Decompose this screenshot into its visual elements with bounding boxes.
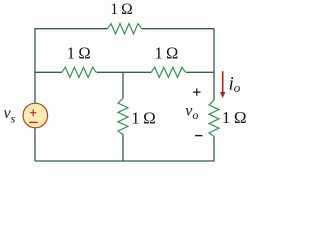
svg-text:1 Ω: 1 Ω <box>131 108 156 127</box>
resistor R1 1ohm top <box>108 24 142 34</box>
voltage source minus sign <box>29 121 38 123</box>
wire: row2 middle <box>97 71 152 73</box>
current arrow io <box>222 71 224 93</box>
svg-text:1 Ω: 1 Ω <box>222 108 247 127</box>
voltage source plus sign <box>30 110 36 117</box>
label vo minus <box>195 135 202 137</box>
resistor R2 1ohm row2 left <box>62 67 96 77</box>
svg-text:1 Ω: 1 Ω <box>154 44 178 63</box>
svg-text:io: io <box>229 75 241 96</box>
resistor R3 1ohm row2 right <box>151 67 185 77</box>
label vo plus <box>193 89 200 96</box>
wire: row2 right <box>186 71 214 73</box>
svg-text:1 Ω: 1 Ω <box>67 43 91 62</box>
wire: top right segment <box>142 29 214 100</box>
svg-text:vo: vo <box>185 103 198 122</box>
wire: middle vertical lower <box>122 134 124 161</box>
svg-text:1 Ω: 1 Ω <box>110 1 132 18</box>
resistor R4 1ohm middle vertical <box>118 98 128 134</box>
resistor R5 1ohm right vertical <box>209 100 219 136</box>
wire: middle vertical <box>122 72 124 98</box>
svg-text:vs: vs <box>4 105 16 126</box>
wire: row2 left <box>35 71 62 73</box>
wire: bottom <box>35 136 214 161</box>
voltage source vs circle <box>23 103 48 128</box>
wire: top left segment <box>35 29 108 161</box>
